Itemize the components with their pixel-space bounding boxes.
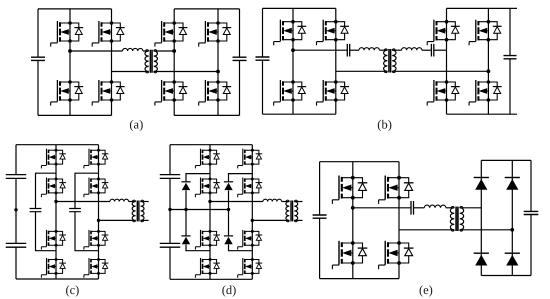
wire: (e) leg1 to series capacitor xyxy=(353,207,411,209)
transistor Q6 (a, upper-right of output bridge) xyxy=(199,21,232,47)
wire: left bridge leg 1 xyxy=(69,9,71,116)
transistor Q12 (b, lower-right) xyxy=(317,80,350,106)
transistor Q9 (b, upper-left) xyxy=(274,20,307,46)
wire: (c) flying cap 2 lower lead xyxy=(75,212,99,251)
transistor Q15 (b, output lower-left) xyxy=(427,80,460,106)
wire: (b) leg1 to series capacitor xyxy=(293,49,347,51)
wire: (b) inductor to series capacitor xyxy=(422,49,432,51)
wire: (c) leg1 output to inductor xyxy=(56,201,110,203)
wire: right bridge leg 1 xyxy=(173,9,175,116)
wire: (d) secondary top stub xyxy=(294,201,302,203)
transistor Q3 (a, lower-left) xyxy=(51,80,83,106)
node: (c) dc-link midpoint xyxy=(14,208,17,211)
wire: (d) secondary bottom stub xyxy=(294,219,302,221)
wire: (d) clamp diode D2 upper lead xyxy=(185,210,187,236)
inductor L3 (b secondary) xyxy=(402,48,422,51)
diode D3 (d, upper clamp leg2) xyxy=(224,182,233,190)
transformer T3 (c) xyxy=(132,202,135,221)
node: (d) clamp branch 1 junction xyxy=(184,208,187,211)
wire: (b) secondary to inductor xyxy=(392,49,401,51)
transistor Q8 (a, lower-right of output bridge) xyxy=(199,80,232,106)
wire: (b) secondary bottom to right leg2 xyxy=(392,70,488,72)
wire: (d) clamp diode D4 upper lead xyxy=(228,210,230,236)
wire: (e) input rail lower xyxy=(319,218,321,278)
transistor Q26 (d, leg1 switch 2) xyxy=(195,178,220,198)
svg-text:(c): (c) xyxy=(65,283,79,297)
transistor Q10 (b, upper-right) xyxy=(317,20,350,46)
transistor Q21 (c, leg2 switch 1) xyxy=(84,149,109,169)
transistor Q29 (d, leg2 switch 1) xyxy=(238,149,263,169)
node: (d) clamp branch 2 junction xyxy=(227,208,230,211)
circuit (d) diode-clamped three-level converter xyxy=(160,145,303,280)
diode D7 (e, lower-left) xyxy=(474,253,489,265)
wire: (c) inductor to transformer xyxy=(129,201,136,203)
node: (d) dc-link midpoint xyxy=(168,208,171,211)
wire: (e) leg2 to transformer xyxy=(399,229,454,231)
wire: (c) flying cap 1 upper lead xyxy=(36,173,57,208)
capacitor C5 (b series, secondary) xyxy=(431,44,433,57)
svg-text:(e): (e) xyxy=(419,283,433,297)
wire: (e) rectifier leg 2 xyxy=(511,160,513,275)
transistor Q35 (e, lower-left) xyxy=(332,241,367,269)
wire: (e) cap to inductor xyxy=(414,207,425,209)
wire: (d) rail lower xyxy=(169,247,171,279)
capacitor C1 (input dc-link) xyxy=(31,57,45,60)
capacitor C11 (d dc-link upper) xyxy=(160,175,181,179)
node: (b) right leg2 midpoint xyxy=(487,69,491,73)
transistor Q36 (e, lower-right) xyxy=(379,241,414,269)
node: (c) leg1 output xyxy=(54,200,57,203)
wire: (d) top rail xyxy=(170,144,252,146)
node: (c) leg2 output xyxy=(97,219,100,222)
transistor Q20 (c, leg1 switch 4) xyxy=(41,258,66,278)
wire: (b) right bridge leg 1 xyxy=(446,8,448,114)
transistor Q14 (b, output upper-right) xyxy=(469,20,502,46)
wire: (e) rectifier top rail xyxy=(481,159,531,161)
wire: (e) bridge top rail xyxy=(320,161,399,163)
wire: right bridge leg 2 xyxy=(217,9,219,116)
diode D6 (e, upper-right) xyxy=(505,178,520,190)
inductor L6 (e) xyxy=(424,205,446,208)
capacitor C4 (b series, primary) xyxy=(347,44,349,57)
capacitor C3 (b input dc-link) xyxy=(256,57,270,60)
wire: (c) rail lower xyxy=(15,247,17,279)
node: right leg1 midpoint (a) xyxy=(172,49,176,53)
capacitor C9 (c flying, leg1) xyxy=(30,209,42,212)
transistor Q11 (b, lower-left) xyxy=(274,80,307,106)
wire: (d) clamp diode D4 lower lead xyxy=(229,245,253,251)
inductor L5 (d) xyxy=(263,199,282,201)
wire: (c) flying cap 2 upper lead xyxy=(75,173,99,208)
wire: (d) leg 1 xyxy=(209,145,211,280)
wire: (d) clamp diode D3 upper lead xyxy=(229,174,253,182)
wire: (e) bridge bottom rail xyxy=(320,278,399,280)
wire: leg2 to transformer xyxy=(112,71,149,73)
wire: (c) secondary top stub xyxy=(141,201,149,203)
wire: (c) flying cap 1 lower lead xyxy=(36,212,57,251)
wire: (e) input rail upper xyxy=(319,162,321,215)
capacitor C14 (e series) xyxy=(411,201,414,215)
wire: (c) leg 2 xyxy=(98,145,100,279)
wire: (d) clamp diode D3 lower lead xyxy=(228,190,230,209)
node: (d) leg2 output xyxy=(251,219,254,222)
diode D2 (d, lower clamp leg1) xyxy=(181,236,190,244)
wire: (d) clamp diode D1 lower lead xyxy=(185,190,187,209)
wire: right bridge top rail xyxy=(174,8,239,10)
transistor Q17 (c, leg1 switch 1) xyxy=(41,149,66,169)
node: right leg2 midpoint (a) xyxy=(216,70,220,74)
circuit (b) dual active bridge with series LC xyxy=(256,8,518,114)
wire: (d) leg 2 xyxy=(251,145,253,280)
transistor Q33 (e, upper-left) xyxy=(332,176,367,204)
wire: (c) leg2 output to transformer xyxy=(99,219,136,221)
capacitor C10 (c flying, leg2) xyxy=(69,209,81,212)
wire: (d) bottom rail xyxy=(170,278,252,280)
transistor Q24 (c, leg2 switch 4) xyxy=(84,258,109,278)
inductor L1 (a) xyxy=(123,48,143,51)
transistor Q4 (a, lower-right) xyxy=(92,80,125,106)
wire: (e) bridge leg 2 xyxy=(398,162,400,279)
wire: (d) clamp diode D2 lower lead xyxy=(186,245,210,251)
wire: (e) secondary bottom to rectifier xyxy=(460,229,513,231)
svg-text:(b): (b) xyxy=(377,117,392,131)
wire: input rail lower xyxy=(37,60,39,115)
wire: (b) input rail lower xyxy=(262,60,264,114)
transistor Q28 (d, leg1 switch 4) xyxy=(195,258,220,278)
node: (e) leg1 midpoint xyxy=(351,206,355,210)
wire: (c) secondary bottom stub xyxy=(141,219,149,221)
transistor Q31 (d, leg2 switch 3) xyxy=(238,230,263,250)
diode D5 (e, upper-left) xyxy=(474,178,489,190)
wire: (e) output rail lower xyxy=(530,215,532,276)
node: (d) leg1 output xyxy=(208,200,211,203)
transistor Q7 (a, lower-left of output bridge) xyxy=(155,80,188,106)
transistor Q23 (c, leg2 switch 3) xyxy=(84,230,109,250)
wire: (b) leg2 to transformer xyxy=(336,70,388,72)
wire: (c) top rail xyxy=(16,144,99,146)
wire: (d) leg2 output to transformer xyxy=(252,219,289,221)
wire: (c) rail middle xyxy=(15,178,17,243)
diode D8 (e, lower-right) xyxy=(505,253,520,265)
wire: (b) cap to right leg1 xyxy=(434,49,447,51)
transistor Q32 (d, leg2 switch 4) xyxy=(238,258,263,278)
wire: (b) inductor to transformer xyxy=(379,49,387,51)
wire: (b) right bridge top rail xyxy=(447,7,518,9)
node: (e) rectifier leg2 midpoint xyxy=(510,228,514,232)
capacitor C15 (e output) xyxy=(524,211,539,214)
capacitor C7 (c dc-link upper) xyxy=(6,175,27,179)
transformer T1 (a) xyxy=(145,51,149,72)
wire: (c) leg 1 xyxy=(55,145,57,279)
transformer T2 (b) xyxy=(384,50,388,71)
wire: (d) rail upper xyxy=(169,145,171,175)
capacitor C2 (output dc-link) xyxy=(233,57,247,60)
transformer T5 (e) xyxy=(450,208,454,230)
transistor Q18 (c, leg1 switch 2) xyxy=(41,178,66,198)
transistor Q16 (b, output lower-right) xyxy=(469,80,502,106)
wire: (e) inductor to transformer xyxy=(446,207,454,209)
wire: (b) left bridge bottom rail xyxy=(263,113,336,115)
wire: (e) rectifier bottom rail xyxy=(481,275,531,277)
wire: (b) left bridge leg 1 xyxy=(292,8,294,114)
transistor Q19 (c, leg1 switch 3) xyxy=(41,230,66,250)
wire: (b) input rail upper xyxy=(262,8,264,57)
wire: left bridge top rail xyxy=(38,8,112,10)
inductor L4 (c) xyxy=(110,199,129,201)
capacitor C13 (e input dc-link) xyxy=(313,215,327,218)
diode D4 (d, lower clamp leg2) xyxy=(224,236,233,244)
wire: (b) output cap branch lower xyxy=(509,59,511,114)
wire: (e) bridge leg 1 xyxy=(352,162,354,279)
wire: output rail lower xyxy=(239,60,241,115)
transistor Q2 (a, upper-right) xyxy=(92,21,125,47)
wire: (d) inductor to transformer xyxy=(282,201,290,203)
svg-text:(d): (d) xyxy=(222,283,237,297)
transistor Q13 (b, output upper-left) xyxy=(427,20,460,46)
transistor Q25 (d, leg1 switch 1) xyxy=(195,149,220,169)
transistor Q27 (d, leg1 switch 3) xyxy=(195,230,220,250)
wire: input rail upper xyxy=(37,9,39,57)
transformer T4 (d) xyxy=(286,202,289,221)
wire: inductor to transformer xyxy=(143,50,149,52)
capacitor C12 (d dc-link lower) xyxy=(160,243,181,247)
capacitor C6 (b output dc-link) xyxy=(504,56,517,59)
node: (b) left leg1 midpoint xyxy=(291,48,295,52)
wire: (b) right bridge leg 2 xyxy=(487,8,489,114)
wire: (d) clamp diode D1 upper lead xyxy=(186,174,210,182)
svg-text:(a): (a) xyxy=(129,117,143,131)
wire: (e) secondary top to rectifier xyxy=(460,207,482,209)
wire: output rail upper xyxy=(239,9,241,57)
wire: secondary top to right leg1 xyxy=(154,50,175,52)
wire: left bridge leg 2 xyxy=(111,9,113,116)
transistor Q34 (e, upper-right) xyxy=(379,176,414,204)
wire: right bridge bottom rail xyxy=(174,114,239,116)
transistor Q22 (c, leg2 switch 2) xyxy=(84,178,109,198)
circuit (c) flying-capacitor three-level converter xyxy=(6,145,149,279)
wire: secondary bottom to right leg2 xyxy=(154,71,218,73)
node: leg1 midpoint (a) xyxy=(68,49,72,53)
wire: (b) left bridge leg 2 xyxy=(335,8,337,114)
transistor Q5 (a, upper-left of output bridge) xyxy=(155,21,188,47)
circuit (a) dual active bridge xyxy=(31,9,247,116)
circuit (e) full bridge with diode rectifier xyxy=(313,160,539,278)
wire: (c) rail upper xyxy=(15,145,17,175)
wire: left bridge bottom rail xyxy=(38,114,112,116)
inductor L2 (b primary) xyxy=(359,48,379,51)
wire: (e) output rail upper xyxy=(530,160,532,211)
wire: leg1 to inductor xyxy=(70,50,123,52)
wire: (d) leg1 output to inductor xyxy=(210,201,263,203)
transistor Q30 (d, leg2 switch 2) xyxy=(238,178,263,198)
capacitor C8 (c dc-link lower) xyxy=(6,243,27,247)
wire: (b) cap to inductor xyxy=(350,49,359,51)
wire: (e) rectifier leg 1 xyxy=(480,160,482,275)
diode D1 (d, upper clamp leg1) xyxy=(181,182,190,190)
transistor Q1 (a, upper-left) xyxy=(51,21,83,47)
wire: (b) right bridge bottom rail xyxy=(447,113,518,115)
wire: (b) output cap branch upper xyxy=(509,8,511,55)
wire: (d) midpoint bus xyxy=(170,209,229,211)
wire: (c) bottom rail xyxy=(16,278,99,280)
wire: (b) left bridge top rail xyxy=(263,7,336,9)
wire: (d) rail middle xyxy=(169,178,171,243)
